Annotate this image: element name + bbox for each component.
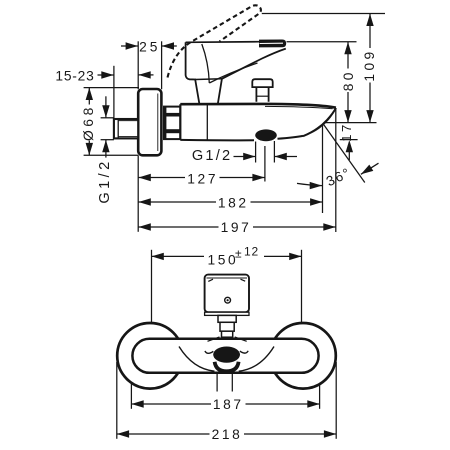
svg-text:80: 80 — [341, 69, 356, 91]
svg-text:109: 109 — [362, 48, 377, 81]
svg-text:187: 187 — [213, 397, 244, 412]
svg-text:17: 17 — [339, 122, 354, 141]
svg-text:25: 25 — [139, 39, 160, 54]
svg-text:150: 150 — [208, 253, 239, 268]
svg-text:Ø68: Ø68 — [81, 104, 96, 141]
svg-text:182: 182 — [218, 196, 249, 211]
svg-text:218: 218 — [212, 427, 243, 442]
svg-text:G1/2: G1/2 — [97, 158, 113, 203]
svg-text:15-23: 15-23 — [55, 69, 94, 84]
svg-text:±: ± — [235, 247, 242, 261]
svg-text:G1/2: G1/2 — [192, 148, 232, 164]
svg-text:197: 197 — [221, 220, 252, 235]
svg-text:12: 12 — [244, 245, 259, 259]
svg-text:127: 127 — [187, 171, 218, 186]
